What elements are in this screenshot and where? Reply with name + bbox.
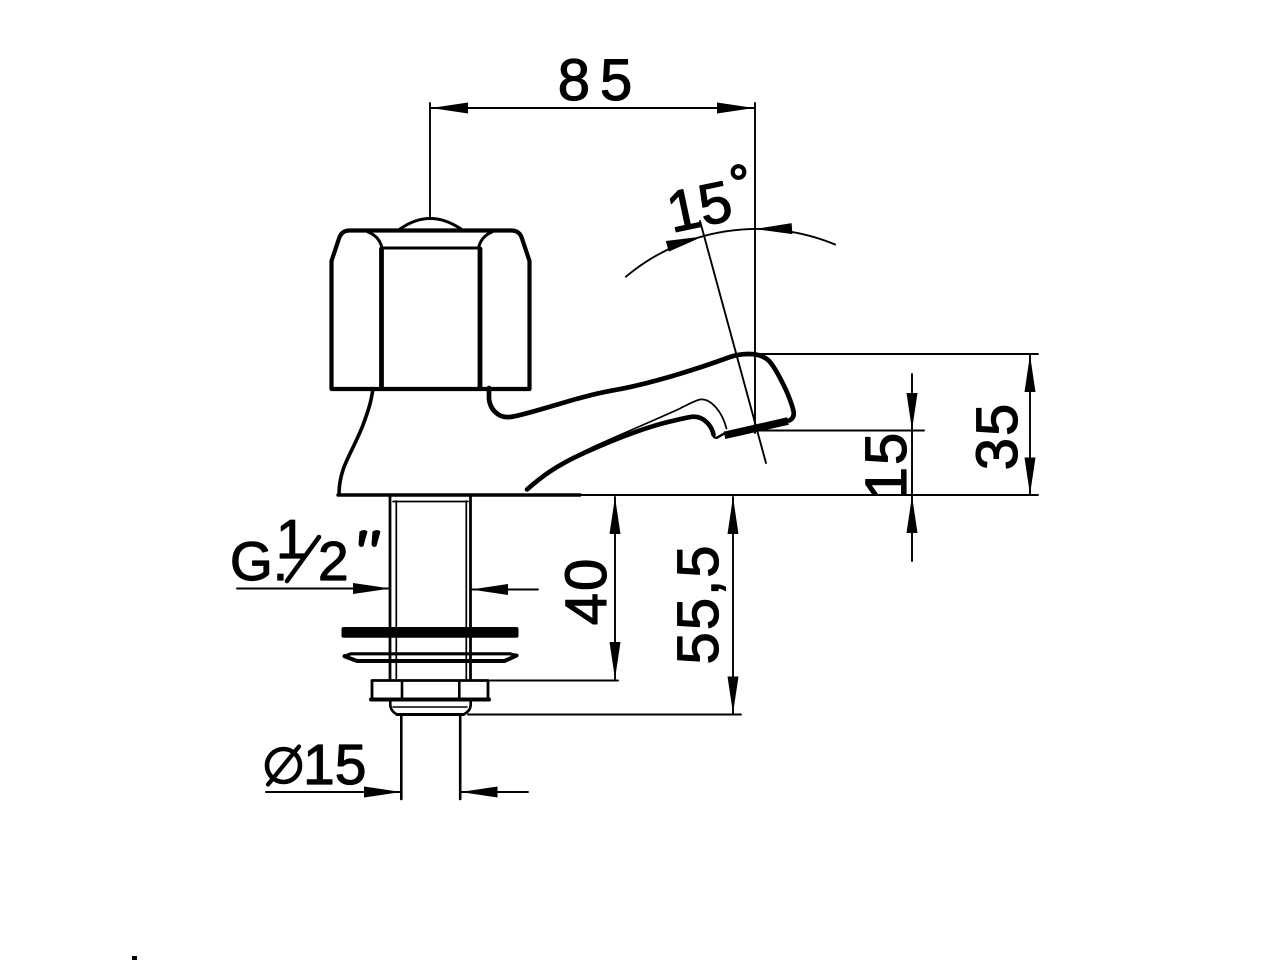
handle facet right <box>478 249 483 387</box>
handle facet left <box>379 249 384 387</box>
stray dot bottom left <box>132 956 137 960</box>
arrow 40 bottom <box>610 642 621 679</box>
svg-text:55,5: 55,5 <box>666 544 731 665</box>
extension line shank bottom <box>468 714 741 716</box>
nut outline <box>372 681 488 700</box>
handle outer profile <box>332 231 530 390</box>
degree mark <box>733 166 745 178</box>
arrow 85 right <box>717 103 754 114</box>
body left outline <box>339 389 373 495</box>
base line body <box>338 493 580 496</box>
dimension line 55,5 <box>732 497 734 714</box>
label diameter 15 <box>267 749 300 782</box>
arrow dia15 right <box>461 787 498 798</box>
svg-text:40: 40 <box>554 557 619 626</box>
dimension line 85 <box>431 107 754 109</box>
shank end below nut right <box>464 702 471 715</box>
svg-text:35: 35 <box>965 402 1030 471</box>
arrow 55,5 top <box>728 497 739 534</box>
shank end line <box>393 706 467 708</box>
nut facet left <box>401 681 404 698</box>
dimension line 15 <box>911 374 913 495</box>
shank end bottom <box>397 713 464 716</box>
angle reference line 15deg <box>700 221 766 463</box>
pipe right <box>459 716 462 799</box>
handle dome <box>400 219 461 230</box>
arrow dia15 left <box>364 787 401 798</box>
extension line spout crest <box>755 353 1038 355</box>
shank inner right <box>465 501 467 680</box>
angle arc <box>626 229 835 277</box>
nut facet right <box>458 681 461 698</box>
svg-text:15: 15 <box>854 431 919 500</box>
arrow 15 lower <box>907 496 918 533</box>
pipe left <box>400 716 403 799</box>
arc arrow at vertical line <box>755 223 792 234</box>
bevel washer <box>345 654 517 656</box>
dimension line 35 <box>1029 355 1031 495</box>
bevel washer lower edge <box>345 656 517 662</box>
leader line G.1/2 right <box>471 589 538 591</box>
arrow 35 bottom <box>1025 458 1036 495</box>
shank inner left <box>395 501 397 680</box>
spout outlet lip <box>712 428 725 438</box>
spout underside <box>527 417 714 490</box>
arrow 35 top <box>1025 355 1036 392</box>
rubber washer <box>342 627 519 638</box>
arrow G.1/2 left <box>353 583 390 594</box>
arc arrow at slant line <box>666 237 703 252</box>
spout inner highlight line <box>529 399 727 486</box>
svg-text:2: 2 <box>318 530 349 592</box>
arrow 55,5 bottom <box>728 677 739 714</box>
svg-text:15: 15 <box>661 168 738 245</box>
extension line nut top <box>490 680 618 682</box>
extension line handle center <box>429 103 431 217</box>
arrow 85 left <box>431 103 468 114</box>
dimension line diameter 15 <box>266 791 401 793</box>
body right and spout top edge <box>489 354 794 420</box>
arrow G.1/2 right <box>471 584 508 595</box>
spout outlet face <box>724 417 789 439</box>
leader line G.1/2 left <box>237 588 390 590</box>
extension line spout tip vertical <box>754 103 756 433</box>
shank top chamfer line <box>393 501 468 503</box>
handle top chamfer <box>368 232 492 248</box>
shank outer right <box>469 496 472 680</box>
extension line base plane right <box>580 494 1038 496</box>
svg-text:85: 85 <box>558 48 643 113</box>
shank outer left <box>389 496 392 680</box>
svg-text:15: 15 <box>303 733 366 797</box>
dimension line 40 <box>614 497 616 679</box>
arrow 15 upper <box>907 393 918 430</box>
shank end below nut left <box>390 702 397 715</box>
nut bottom thick <box>371 698 489 702</box>
arrow 40 top <box>610 497 621 534</box>
extension line outlet bottom <box>753 430 924 432</box>
